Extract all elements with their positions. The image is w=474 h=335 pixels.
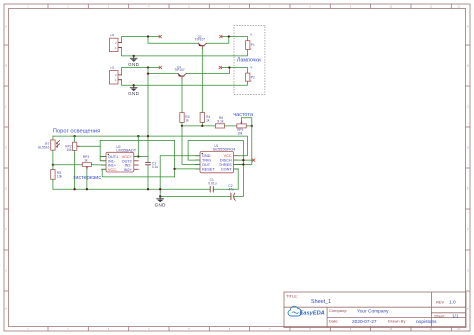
wire P1 return <box>134 49 248 56</box>
node junction GND tap row1 <box>133 55 135 57</box>
wire C2 left <box>160 195 231 197</box>
resistor R4 <box>200 113 204 123</box>
wire U1 RESET <box>175 168 200 170</box>
svg-text:частота: частота <box>233 112 254 118</box>
node junction U2 VCC+ <box>137 155 139 157</box>
node junction divider <box>52 164 54 166</box>
wire divider node to RP3 <box>53 164 82 166</box>
resistor R6 <box>215 124 224 128</box>
svg-text:VCC-: VCC- <box>108 168 118 172</box>
svg-text:REV: REV <box>436 299 445 304</box>
svg-text:G: G <box>5 271 7 273</box>
capacitor C3 <box>146 162 151 164</box>
wire R4 bottom <box>201 122 203 126</box>
wire H1 pin2 to rail <box>118 37 148 43</box>
svg-text:H1: H1 <box>111 33 115 37</box>
svg-text:THRES: THRES <box>219 163 232 167</box>
photoresistor R7 <box>51 136 60 165</box>
wire to P1 top <box>229 37 248 41</box>
svg-text:GND: GND <box>128 62 140 67</box>
svg-text:Company:: Company: <box>329 308 347 313</box>
resistor R5 <box>51 165 55 180</box>
wire U1 CONT to C1 <box>213 169 238 189</box>
svg-text:IN2+: IN2+ <box>124 168 133 172</box>
svg-text:0.01u: 0.01u <box>208 182 216 186</box>
node junction RESET <box>173 168 175 170</box>
wire RP3 wiper to gnd rail <box>86 169 88 189</box>
potentiometer RP1 <box>237 121 247 128</box>
node junction RP2 top <box>73 135 75 137</box>
timer U1 <box>196 144 239 173</box>
svg-text:1k: 1k <box>84 158 88 162</box>
node junction ground column <box>159 188 161 190</box>
wire U2 OUT1 stub extension <box>100 156 106 158</box>
wire bus to R6 <box>182 125 215 127</box>
wire IN1- column <box>100 141 106 161</box>
svg-text:TITLE:: TITLE: <box>286 294 298 299</box>
wire RP1 right pin <box>246 125 252 127</box>
wire supply vertical V1 <box>147 68 149 163</box>
svg-text:EasyEDA: EasyEDA <box>300 311 325 317</box>
ground G1 <box>130 56 137 62</box>
svg-text:1k: 1k <box>206 119 210 123</box>
capacitor C2 electrolytic <box>231 193 235 199</box>
svg-text:DISCH: DISCH <box>220 159 232 163</box>
svg-text:+: + <box>250 65 253 70</box>
svg-text:TIP107: TIP107 <box>195 38 206 42</box>
svg-text:Sheet_1: Sheet_1 <box>311 299 331 305</box>
no-connect X row1 left <box>159 35 162 38</box>
wire gnd rail <box>53 188 210 190</box>
svg-text:Drawn By:: Drawn By: <box>388 319 406 324</box>
transistor Q1 <box>178 74 186 79</box>
node junction U2 VCC+ rail <box>137 135 139 137</box>
ground G3 <box>157 196 164 202</box>
potentiometer RP2 <box>72 136 79 189</box>
wire Q1 base to R3 <box>181 79 183 113</box>
ground G2 <box>130 85 137 91</box>
transistor Q2 <box>198 43 206 48</box>
svg-text:Порог освещения: Порог освещения <box>53 128 100 134</box>
svg-text:Date:: Date: <box>329 319 339 324</box>
svg-text:10k: 10k <box>66 148 72 152</box>
node junction P2 feed <box>228 66 230 68</box>
svg-text:5.1k: 5.1k <box>217 120 224 124</box>
svg-text:P2: P2 <box>251 75 255 79</box>
svg-text:G: G <box>467 271 469 273</box>
wire R6 to RP1 <box>225 125 237 127</box>
node junction H1 rail <box>147 35 149 37</box>
svg-text:Your Company: Your Company <box>357 309 389 315</box>
lamp P1 <box>246 41 250 50</box>
node junction RP2 gnd <box>73 188 75 190</box>
node junction C2 gnd <box>159 195 161 197</box>
svg-text:nopistons: nopistons <box>416 319 437 325</box>
wire R3 bottom <box>181 122 183 126</box>
wire H1 junction to Q2 emitter <box>148 37 198 44</box>
wire Q1 collector riser <box>186 68 229 74</box>
wire Q1 emitter <box>148 73 178 75</box>
node junction R3 bus <box>181 125 183 127</box>
op-amp U2 <box>102 145 139 172</box>
node junction C3 gnd <box>147 188 149 190</box>
svg-text:LM358ADT: LM358ADT <box>116 147 136 152</box>
wire RP1 wiper loop to THRES <box>238 118 252 165</box>
connector H1 <box>110 33 122 51</box>
wire rail stub row1 <box>148 36 160 38</box>
svg-text:Лампочки: Лампочки <box>237 57 261 63</box>
wire to P2 top <box>229 68 247 74</box>
node junction H2 rail <box>147 66 149 68</box>
svg-text:10k: 10k <box>237 132 243 136</box>
wire loop over U2 to RESET column <box>100 141 174 177</box>
wire U1 DISCH stub <box>234 159 253 161</box>
svg-text:TIP107: TIP107 <box>174 68 185 72</box>
node junction RP3 gnd <box>86 188 88 190</box>
svg-text:0.1u: 0.1u <box>152 165 159 169</box>
wire U2 VCC+ stub <box>134 156 139 158</box>
dashed enclosure lamps <box>234 25 265 94</box>
wire Q2 base to R4 <box>201 49 203 113</box>
svg-text:OUT: OUT <box>202 163 211 167</box>
wire Q2 collector riser <box>206 37 229 44</box>
svg-text:GND: GND <box>128 91 140 96</box>
svg-text:гистерезис: гистерезис <box>73 175 101 181</box>
wire U2 VCC+ to supply <box>138 136 148 156</box>
svg-text:1/1: 1/1 <box>452 314 459 319</box>
wire U1 THRES <box>234 164 244 166</box>
wire U1 TRIG loop to C2 <box>188 141 243 197</box>
node junction Q1 emitter tap <box>147 72 149 74</box>
wire X stub row2 right <box>221 67 229 69</box>
node junction RP1 right <box>251 125 253 127</box>
wire U1 GND to ground column <box>160 156 200 200</box>
node junction P1 feed <box>228 35 230 37</box>
svg-text:TRIG: TRIG <box>202 159 211 163</box>
wire H1 pin1 <box>118 48 134 56</box>
wire RP2 wiper to IN1- column <box>79 145 100 147</box>
svg-text:+: + <box>250 32 253 37</box>
wire P2 return <box>134 81 248 85</box>
lamp P2 <box>246 73 250 81</box>
node junction GND tap row2 <box>133 84 135 86</box>
svg-text:1.0: 1.0 <box>449 300 456 306</box>
wire U2 VCC- return <box>102 169 174 177</box>
capacitor C1 <box>210 186 213 192</box>
node junction DISCH <box>242 159 244 161</box>
wire rail stub row2 <box>148 67 160 69</box>
svg-text:1k: 1k <box>185 119 189 123</box>
svg-text:47u: 47u <box>228 188 234 192</box>
wire C3 bottom <box>147 165 149 189</box>
svg-text:CONT: CONT <box>221 167 232 171</box>
EasyEDA logo <box>288 306 325 316</box>
wire H2 pin1 <box>118 80 134 86</box>
wire H2 pin2 to rail <box>118 68 148 75</box>
node junction R4 bus <box>201 125 203 127</box>
wire X stub row1 right <box>222 36 229 38</box>
no-connect X row1 right <box>220 35 223 38</box>
wire R5 bottom <box>52 179 54 189</box>
no-connect X row2 right <box>219 66 222 69</box>
svg-text:H2: H2 <box>111 66 115 70</box>
node junction THRES <box>242 163 244 165</box>
svg-text:GL5516: GL5516 <box>38 145 50 149</box>
svg-text:2020-07-27: 2020-07-27 <box>352 319 377 325</box>
wire U1 OUT to R3 junction <box>182 126 200 165</box>
connector H2 <box>110 66 122 84</box>
svg-text:GND: GND <box>155 202 167 207</box>
title block <box>284 292 466 328</box>
svg-text:+: + <box>235 199 237 203</box>
resistor R3 <box>180 113 184 123</box>
svg-text:P1: P1 <box>251 43 255 47</box>
svg-text:RESET: RESET <box>202 167 215 171</box>
wire RP3 to IN1+ <box>92 164 107 166</box>
svg-text:Sheet:: Sheet: <box>434 313 446 318</box>
no-connect X DISCH <box>252 159 255 162</box>
svg-text:SE555DRG4: SE555DRG4 <box>213 147 236 152</box>
wire supply rail to U1 VCC <box>53 136 248 156</box>
no-connect X row2 left <box>159 66 162 69</box>
svg-text:10k: 10k <box>57 175 63 179</box>
potentiometer RP3 <box>82 163 91 169</box>
node junction V1 rail <box>147 135 149 137</box>
